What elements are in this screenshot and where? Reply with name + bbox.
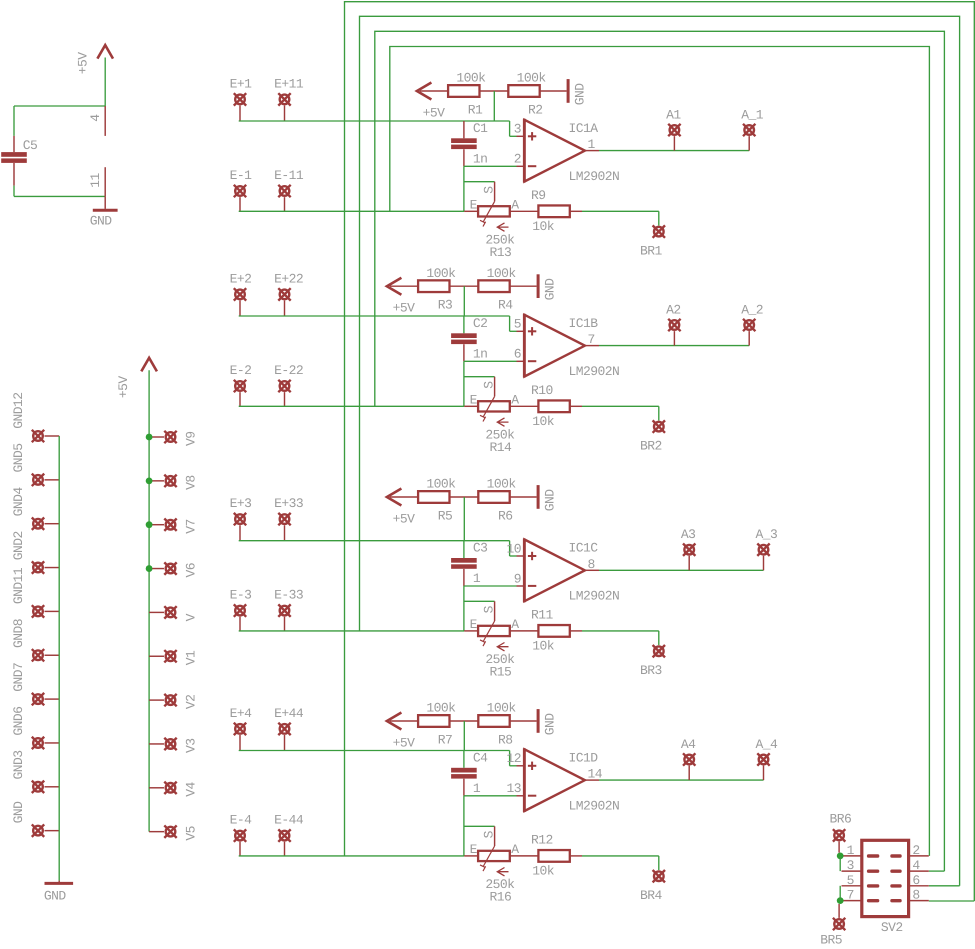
svg-text:GND: GND [573, 83, 588, 106]
svg-text:1n: 1n [473, 151, 488, 166]
svg-text:C3: C3 [473, 541, 488, 556]
svg-text:IC1D: IC1D [569, 750, 599, 765]
svg-text:V7: V7 [184, 519, 199, 534]
svg-text:E: E [470, 842, 478, 857]
svg-text:E+1: E+1 [230, 76, 253, 91]
svg-text:1n: 1n [473, 346, 488, 361]
svg-text:BR3: BR3 [640, 663, 662, 678]
svg-text:E-2: E-2 [230, 363, 252, 378]
svg-text:GND8: GND8 [11, 619, 26, 648]
svg-text:5: 5 [847, 873, 854, 888]
svg-text:V1: V1 [184, 650, 199, 665]
svg-text:V3: V3 [184, 738, 199, 753]
svg-text:BR4: BR4 [640, 888, 663, 903]
svg-text:BR2: BR2 [640, 439, 662, 454]
svg-text:10k: 10k [532, 639, 555, 654]
svg-text:R4: R4 [498, 298, 513, 313]
svg-text:100k: 100k [456, 71, 486, 86]
svg-text:R1: R1 [468, 103, 483, 118]
svg-text:2: 2 [912, 843, 919, 858]
svg-text:S: S [481, 605, 496, 613]
svg-text:GND: GND [11, 801, 26, 824]
svg-text:100k: 100k [487, 477, 517, 492]
svg-text:GND: GND [543, 713, 558, 736]
svg-text:R2: R2 [528, 103, 543, 118]
svg-text:+5V: +5V [116, 376, 131, 399]
svg-text:E: E [470, 198, 478, 213]
svg-text:GND11: GND11 [11, 567, 26, 604]
svg-text:R16: R16 [490, 890, 512, 905]
svg-text:+5V: +5V [393, 736, 416, 751]
svg-text:GND5: GND5 [11, 444, 26, 473]
svg-text:E+2: E+2 [230, 271, 252, 286]
svg-text:8: 8 [912, 888, 919, 903]
svg-text:E-33: E-33 [274, 588, 303, 603]
svg-text:A: A [511, 617, 519, 632]
svg-text:3: 3 [847, 858, 854, 873]
svg-text:LM2902N: LM2902N [569, 364, 620, 379]
svg-text:100k: 100k [487, 266, 517, 281]
svg-text:10k: 10k [532, 219, 555, 234]
svg-text:R7: R7 [438, 733, 453, 748]
svg-text:100k: 100k [426, 701, 456, 716]
svg-text:V4: V4 [184, 782, 199, 797]
svg-text:R14: R14 [490, 440, 513, 455]
svg-text:A3: A3 [681, 527, 696, 542]
svg-text:100k: 100k [426, 477, 456, 492]
svg-text:R10: R10 [531, 383, 553, 398]
svg-text:V9: V9 [184, 431, 199, 446]
svg-text:V2: V2 [184, 695, 199, 710]
svg-text:13: 13 [506, 781, 521, 796]
svg-text:E-4: E-4 [230, 813, 253, 828]
svg-text:6: 6 [514, 347, 521, 362]
svg-text:100k: 100k [487, 701, 517, 716]
svg-text:GND: GND [44, 889, 67, 904]
svg-text:E-1: E-1 [230, 168, 253, 183]
svg-text:9: 9 [514, 571, 521, 586]
svg-text:R6: R6 [498, 509, 513, 524]
svg-text:GND: GND [543, 278, 558, 301]
svg-text:10k: 10k [532, 864, 555, 879]
svg-text:10k: 10k [532, 414, 555, 429]
svg-text:GND: GND [543, 489, 558, 512]
svg-text:GND12: GND12 [11, 392, 26, 428]
svg-text:A_4: A_4 [756, 737, 779, 752]
svg-text:E+44: E+44 [274, 706, 304, 721]
svg-text:R12: R12 [531, 833, 553, 848]
svg-text:A_2: A_2 [741, 303, 763, 318]
svg-text:S: S [481, 830, 496, 838]
svg-text:10: 10 [506, 541, 521, 556]
svg-text:E: E [470, 393, 478, 408]
svg-text:E: E [470, 617, 478, 632]
svg-text:R13: R13 [490, 245, 512, 260]
svg-text:E-11: E-11 [274, 168, 304, 183]
svg-text:E+3: E+3 [230, 496, 252, 511]
svg-text:E-44: E-44 [274, 813, 304, 828]
svg-text:A2: A2 [666, 303, 681, 318]
svg-text:LM2902N: LM2902N [569, 589, 620, 604]
svg-text:100k: 100k [426, 266, 456, 281]
svg-text:IC1A: IC1A [569, 121, 599, 136]
svg-text:5: 5 [514, 317, 521, 332]
svg-text:GND4: GND4 [11, 487, 26, 517]
svg-text:1: 1 [473, 781, 481, 796]
svg-text:V6: V6 [184, 563, 199, 578]
svg-text:+5V: +5V [393, 512, 416, 527]
svg-text:LM2902N: LM2902N [569, 799, 620, 814]
svg-text:C2: C2 [473, 316, 488, 331]
svg-text:R3: R3 [438, 298, 453, 313]
svg-text:E+33: E+33 [274, 496, 303, 511]
svg-text:V5: V5 [184, 826, 199, 841]
svg-text:S: S [481, 186, 496, 194]
svg-text:R8: R8 [498, 733, 513, 748]
svg-text:C5: C5 [23, 138, 38, 153]
svg-text:100k: 100k [517, 71, 547, 86]
svg-text:+5V: +5V [423, 106, 446, 121]
svg-text:V8: V8 [184, 475, 199, 490]
svg-text:GND: GND [90, 214, 113, 229]
svg-text:4: 4 [912, 858, 920, 873]
svg-text:GND3: GND3 [11, 750, 26, 779]
svg-text:LM2902N: LM2902N [569, 169, 620, 184]
svg-text:A: A [511, 842, 519, 857]
svg-text:R9: R9 [531, 188, 546, 203]
svg-text:BR6: BR6 [830, 812, 852, 827]
svg-text:IC1C: IC1C [569, 541, 599, 556]
svg-text:+5V: +5V [393, 301, 416, 316]
svg-text:R5: R5 [438, 509, 453, 524]
svg-text:E+11: E+11 [274, 76, 304, 91]
svg-text:V: V [184, 613, 199, 621]
svg-text:BR1: BR1 [640, 244, 663, 259]
svg-text:11: 11 [88, 172, 103, 187]
svg-text:2: 2 [514, 152, 521, 167]
svg-text:GND6: GND6 [11, 707, 26, 736]
svg-text:6: 6 [912, 873, 919, 888]
svg-text:A: A [511, 392, 519, 407]
svg-text:GND2: GND2 [11, 531, 26, 560]
svg-text:+5V: +5V [76, 52, 91, 75]
svg-text:4: 4 [88, 114, 103, 122]
svg-text:A1: A1 [666, 108, 681, 123]
svg-text:E-22: E-22 [274, 363, 303, 378]
svg-text:R11: R11 [531, 608, 554, 623]
svg-text:1: 1 [847, 843, 855, 858]
svg-text:12: 12 [506, 751, 521, 766]
svg-text:E+4: E+4 [230, 706, 253, 721]
svg-text:3: 3 [514, 122, 521, 137]
svg-text:IC1B: IC1B [569, 316, 599, 331]
svg-text:C4: C4 [473, 750, 488, 765]
svg-text:A_3: A_3 [756, 527, 778, 542]
svg-text:R15: R15 [490, 665, 512, 680]
svg-text:A_1: A_1 [741, 108, 764, 123]
svg-text:GND7: GND7 [11, 663, 26, 692]
svg-text:1: 1 [473, 571, 481, 586]
svg-text:E+22: E+22 [274, 271, 303, 286]
svg-text:SV2: SV2 [881, 920, 903, 935]
svg-text:BR5: BR5 [820, 933, 842, 948]
svg-text:7: 7 [847, 888, 854, 903]
svg-text:C1: C1 [473, 121, 488, 136]
svg-text:A4: A4 [681, 737, 696, 752]
svg-text:S: S [481, 381, 496, 389]
svg-text:E-3: E-3 [230, 588, 252, 603]
svg-text:A: A [511, 197, 519, 212]
